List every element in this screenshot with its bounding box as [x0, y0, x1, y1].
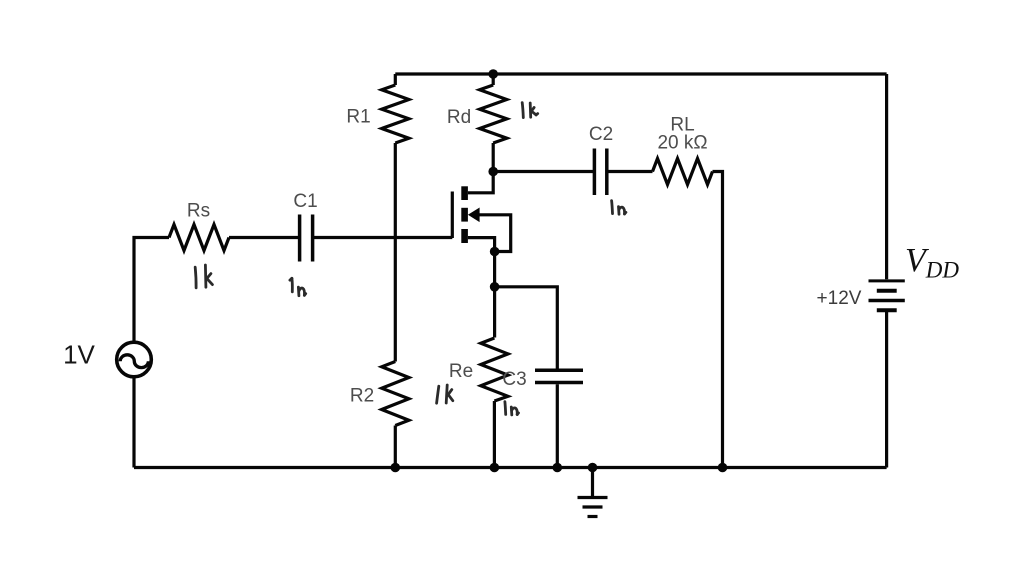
resistor Rd — [480, 74, 507, 172]
wire left column bottom — [132, 377, 135, 468]
battery VDD +12V — [869, 281, 905, 310]
svg-text:Re: Re — [449, 361, 473, 382]
wire right column bottom — [885, 312, 888, 468]
svg-text:R2: R2 — [350, 386, 374, 407]
svg-text:C3: C3 — [502, 369, 526, 390]
wire source node to C3 top — [495, 287, 558, 369]
wire C1 to gate (crosses R1-R2 column) — [314, 236, 452, 239]
node source-body junction dot — [490, 247, 500, 257]
wire top rail — [395, 72, 886, 75]
resistor Rs — [169, 225, 229, 251]
svg-text:C1: C1 — [293, 191, 317, 212]
svg-text:Rs: Rs — [187, 201, 210, 222]
node Re-bottom junction dot — [490, 463, 500, 473]
mosfet Q1 — [452, 173, 510, 338]
node drain junction dot — [488, 167, 498, 177]
wire RL down to bottom rail — [713, 172, 723, 468]
value 1n handwritten (C2) — [612, 201, 626, 215]
ground — [578, 468, 608, 517]
wire left column top (source to Rs corner) — [134, 238, 169, 343]
node R2-bottom junction dot — [391, 463, 401, 473]
node ground junction dot — [588, 463, 598, 473]
value 1k handwritten (Re) — [437, 385, 453, 403]
svg-text:R1: R1 — [346, 107, 370, 128]
wire C3 bottom to bottom rail — [556, 384, 559, 467]
capacitor C2 — [594, 149, 606, 196]
value 1n handwritten (C1) — [290, 278, 306, 295]
svg-text:+12V: +12V — [817, 288, 862, 309]
svg-text:20 kΩ: 20 kΩ — [657, 133, 707, 154]
wire R1 to R2 (through gate wire crossing) — [394, 143, 397, 362]
wire right column top — [885, 74, 888, 279]
wire bottom rail — [134, 466, 887, 469]
capacitor C1 — [300, 215, 313, 262]
svg-text:VDD: VDD — [905, 242, 959, 283]
svg-text:Rd: Rd — [447, 107, 471, 128]
voltage source V1 1V AC — [117, 342, 152, 377]
value 1n handwritten (Re/C3) — [505, 402, 519, 415]
resistor RL — [653, 159, 713, 185]
resistor R2 — [382, 362, 409, 468]
node top rail junction dot — [488, 69, 498, 79]
svg-text:1V: 1V — [63, 340, 95, 370]
node C3-bottom junction dot — [553, 463, 563, 473]
node source junction dot — [490, 282, 500, 292]
value 1k handwritten (Rd) — [522, 103, 538, 118]
node RL-bottom junction dot — [718, 463, 728, 473]
resistor Re — [481, 338, 508, 468]
svg-text:C2: C2 — [589, 124, 613, 145]
wire Rs to C1 — [229, 236, 298, 239]
value 1k handwritten (Rs) — [195, 265, 212, 288]
capacitor C3 — [535, 370, 583, 382]
resistor R1 — [382, 74, 409, 143]
wire drain to C2 — [493, 170, 593, 173]
wire C2 to RL — [608, 170, 652, 173]
